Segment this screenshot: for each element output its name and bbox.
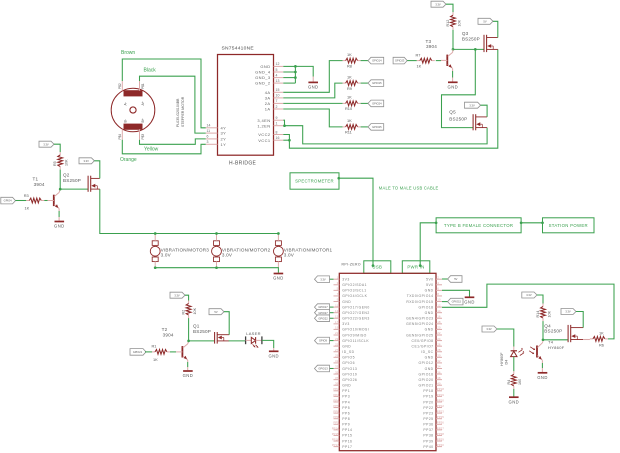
net flag 3.3V for R14 [522,292,537,298]
wire Yellow net [140,139,206,144]
wire D4 to R4 [513,357,515,372]
net flag 3.3V at U2 left [330,278,334,280]
svg-text:35: 35 [335,370,339,374]
wire R14 to T4 collector junction [542,321,544,340]
svg-text:3904: 3904 [34,182,45,187]
svg-text:2Y: 2Y [221,137,227,142]
svg-text:1,2EN: 1,2EN [257,123,270,128]
wire 5V to Q3 source [493,21,498,37]
wire T1 emitter to ground [58,209,60,212]
svg-text:3.3V: 3.3V [486,327,492,331]
svg-text:LASER: LASER [246,331,261,336]
svg-text:13: 13 [276,79,280,83]
svg-text:11: 11 [335,303,338,307]
resistor R9 1K [343,74,361,91]
svg-text:P$1: P$1 [141,83,145,89]
svg-text:GND: GND [464,300,475,305]
svg-text:R1: R1 [152,344,157,349]
svg-text:PP1: PP1 [333,387,339,391]
net flag GPIO24 [368,100,384,107]
svg-text:R7: R7 [416,52,421,57]
svg-text:5V: 5V [454,277,457,281]
svg-text:PP36: PP36 [423,423,433,427]
wire flag to R3 [16,200,27,202]
svg-text:26: 26 [437,342,441,346]
svg-text:GPIO15: GPIO15 [372,81,382,85]
wire 3.3V flag to Q4 top terminal [576,312,583,328]
svg-text:PP6: PP6 [342,411,350,415]
svg-text:R2: R2 [182,310,186,315]
svg-text:10K: 10K [547,310,551,317]
svg-text:Q4: Q4 [544,323,551,328]
svg-text:PP38: PP38 [423,434,433,438]
svg-text:CE1/GPIO7: CE1/GPIO7 [412,344,434,348]
svg-text:A+: A+ [141,101,145,105]
svg-text:38: 38 [437,376,441,380]
wire 1A to R11 [283,109,342,127]
svg-text:R4: R4 [507,380,511,385]
svg-text:3.3V: 3.3V [469,103,475,107]
svg-text:GND_4: GND_4 [255,70,271,75]
svg-text:3V3: 3V3 [342,278,349,282]
svg-text:GPIO21: GPIO21 [133,350,143,354]
wire Q1 gate [189,340,215,342]
svg-text:GPIO15: GPIO15 [452,300,462,304]
svg-text:R12: R12 [446,20,450,27]
svg-text:GND: GND [342,384,351,388]
wire usb cable [339,178,373,265]
ground GND below T1 [54,222,65,229]
svg-text:Q3: Q3 [462,31,469,36]
svg-text:GPIO23: GPIO23 [395,59,405,63]
svg-text:GND_2: GND_2 [255,81,271,86]
wire type-b to station power [521,222,542,224]
svg-text:GPIO21: GPIO21 [419,384,434,388]
svg-text:HY860F: HY860F [500,352,504,366]
svg-text:PP38: PP38 [437,432,444,436]
svg-text:GPIO10/MOSI: GPIO10/MOSI [342,328,369,332]
resistor R7 1K [416,52,435,68]
svg-text:36: 36 [437,370,441,374]
svg-text:15: 15 [335,314,339,318]
svg-text:PP22: PP22 [437,404,444,408]
svg-text:1: 1 [276,122,278,126]
wire R7 to T3 base [436,60,441,62]
svg-text:12: 12 [276,62,280,66]
wire GPIO18 long net to R6 [442,284,614,339]
net flag 3.3V for D4 [482,326,497,332]
svg-text:CE0/GPIO8: CE0/GPIO8 [412,339,434,343]
svg-text:GND: GND [448,85,459,90]
svg-text:34: 34 [437,365,441,369]
svg-text:GND: GND [268,354,279,359]
svg-text:BS250P: BS250P [449,117,467,122]
svg-text:VIBRATION/MOTOR2: VIBRATION/MOTOR2 [222,247,271,252]
ground GND below T4 [537,373,548,380]
wire 3.3V flag to Q2 top terminal [94,161,99,179]
net flag GPIO9 at U2 left [330,340,334,342]
svg-text:10K: 10K [457,19,461,26]
svg-text:RPI-ZERO: RPI-ZERO [342,262,361,266]
junction T4 collector [542,338,545,341]
svg-text:GPIO17: GPIO17 [318,305,328,309]
svg-text:VIBRATION/MOTOR3: VIBRATION/MOTOR3 [161,247,210,252]
net flag GPIO25 [368,124,384,131]
transistor Q5 BS250P [449,110,487,131]
svg-text:PP9: PP9 [333,421,339,425]
svg-text:PP40: PP40 [437,443,444,447]
svg-text:PP39: PP39 [437,437,444,441]
svg-text:A-: A- [124,102,128,105]
svg-text:1Y: 1Y [221,142,227,147]
wire T2 emitter to ground [187,360,189,362]
resistor R11 1K [343,118,361,135]
diode LASER [246,331,262,348]
wire Q4 gate [543,339,568,341]
svg-text:GPIO22: GPIO22 [318,316,328,320]
transistor T3 3904 [426,39,453,68]
wire R2 to T2 collector junction [188,318,190,341]
net flag 5V at U2 pin2 [442,278,448,280]
junction VCC [288,139,291,142]
svg-text:PP5: PP5 [342,406,350,410]
ground GND below T3 [448,82,459,89]
wire T2 collector lead [187,341,190,344]
svg-text:GND: GND [425,356,434,360]
resistor R2 10K [182,301,197,319]
svg-text:PP20: PP20 [423,400,433,404]
svg-text:3,4EN: 3,4EN [257,118,270,123]
svg-text:P$2: P$2 [118,83,122,89]
svg-text:160: 160 [518,379,522,385]
svg-text:GPIO9: GPIO9 [319,339,327,343]
svg-text:5V: 5V [483,19,486,23]
svg-text:28: 28 [437,348,441,352]
svg-text:PP3: PP3 [333,393,339,397]
svg-text:PP18: PP18 [423,389,433,393]
junction type-b left [435,221,438,224]
wire Orange net [122,140,206,154]
svg-text:GPIO16: GPIO16 [419,372,434,376]
svg-text:GPIO5: GPIO5 [342,356,355,360]
svg-text:GND: GND [425,311,434,315]
svg-text:P$4: P$4 [118,134,122,140]
svg-text:HY860F: HY860F [548,345,565,350]
svg-text:3.3V: 3.3V [565,310,571,314]
junction type-b right [520,221,523,224]
svg-text:R5: R5 [53,161,57,166]
svg-text:GPIO12: GPIO12 [419,361,434,365]
svg-text:GND: GND [308,85,319,90]
svg-text:R6: R6 [599,343,604,348]
svg-text:BS250P: BS250P [462,37,480,42]
svg-text:10K: 10K [193,307,197,314]
svg-text:PP19: PP19 [423,395,433,399]
wire to GND symbol [295,66,313,76]
node TYPE B FEMALE CONNECTOR box [436,218,521,233]
svg-text:GPIO14: GPIO14 [372,59,382,63]
svg-text:PP4: PP4 [342,400,350,404]
svg-text:GND: GND [342,300,351,304]
svg-text:4A: 4A [265,90,271,95]
svg-text:STATION POWER: STATION POWER [549,223,588,228]
svg-text:GPIO6: GPIO6 [342,361,355,365]
resistor R14 10K [536,304,551,322]
ground GND after LASER [268,351,279,358]
svg-text:GND: GND [537,375,548,380]
svg-text:1K: 1K [599,330,604,335]
svg-text:Yellow: Yellow [144,147,159,153]
wire LASER to ground [262,340,274,348]
svg-text:GPIO11/SCLK: GPIO11/SCLK [342,339,369,343]
svg-text:GPIO19: GPIO19 [342,372,357,376]
net flag GPIO13 at U2 left [330,367,334,369]
svg-text:PP17: PP17 [332,443,339,447]
svg-text:GEN5/GPIO24: GEN5/GPIO24 [406,322,433,326]
svg-text:Q5: Q5 [449,110,456,115]
svg-text:33: 33 [335,365,339,369]
resistor R8 1K [343,52,361,69]
svg-text:PP9: PP9 [342,423,350,427]
svg-text:39: 39 [335,381,339,385]
wire 4A to R8 [283,61,342,93]
svg-text:R8: R8 [347,63,352,68]
wire R5 to T1 collector junction [59,170,61,190]
ground GND below MOTOR1 [273,274,284,281]
svg-text:Brown: Brown [121,50,135,56]
svg-text:13: 13 [335,309,339,313]
svg-text:GEN4/GPIO23: GEN4/GPIO23 [406,317,433,321]
wire GND bus of U1 [283,65,295,67]
wire motors bottom rail [155,268,278,273]
svg-text:PP16: PP16 [342,439,352,443]
junction [294,65,297,68]
svg-text:14: 14 [437,309,441,313]
svg-text:3.0V: 3.0V [161,253,172,258]
net flag 5V for Q3 [478,18,493,24]
svg-text:GND: GND [260,64,270,69]
svg-text:3.3V: 3.3V [526,293,532,297]
svg-text:1A: 1A [265,107,271,112]
svg-text:PP4: PP4 [333,398,339,402]
svg-text:10K: 10K [65,159,69,166]
wire 3.3V flag to Q5 top terminal [481,105,488,117]
svg-text:22: 22 [437,331,441,335]
svg-text:3.3V: 3.3V [320,277,326,281]
junction Q3 gate branch [474,48,477,51]
net flag GPIO15 at U2 pin10 [442,301,448,303]
junction pwr wire end [419,264,422,267]
wire R1 to T2 base [170,351,176,353]
svg-text:5V0: 5V0 [426,283,433,287]
svg-text:GND: GND [342,344,351,348]
svg-text:PP37: PP37 [423,428,433,432]
transistor T2 3904 [162,327,188,360]
wire T3 emitter to ground [452,68,454,71]
wire U2 GND pin6 [442,290,470,296]
svg-text:PP22: PP22 [423,406,433,410]
wire VCC net to Q3 [283,49,498,148]
svg-text:SN754410NE: SN754410NE [222,46,255,52]
svg-text:10: 10 [276,94,280,98]
svg-text:PP25: PP25 [423,417,433,421]
wire R12 to collector junction [452,30,454,50]
svg-text:6: 6 [207,135,209,139]
wire 3.3V to R14 [537,295,543,304]
svg-text:T1: T1 [33,177,39,182]
svg-text:32: 32 [437,359,441,363]
net flag GPIO17 at U2 left [330,306,334,308]
svg-text:GEN6/GPIO25: GEN6/GPIO25 [406,333,433,337]
junction station power left [541,221,544,224]
svg-text:GND_3: GND_3 [255,75,271,80]
node PWR IN box [402,261,430,274]
resistor R6 1K [590,330,608,347]
op IC U1 SN754410NE H-BRIDGE [206,46,283,167]
transistor T1 3904 [33,177,60,209]
svg-text:3.3V: 3.3V [435,2,441,6]
wire Q3 gate branch down to Q5 gate [442,49,476,127]
wire 3.3V to D4 [497,329,514,347]
svg-text:PP40: PP40 [423,445,433,449]
svg-text:PP20: PP20 [437,398,444,402]
svg-text:1K: 1K [347,95,352,100]
wire Brown net [122,59,206,128]
svg-text:PP5: PP5 [333,404,339,408]
wire Q1 to LASER [229,340,246,342]
junction usb wire end [372,264,375,267]
svg-text:24: 24 [437,337,441,341]
svg-text:11: 11 [207,129,211,133]
svg-text:GPIO18: GPIO18 [419,305,434,309]
svg-text:GPIO17/GEN0: GPIO17/GEN0 [342,305,369,309]
wire T1 collector lead [59,189,60,192]
svg-text:GND: GND [425,367,434,371]
svg-text:PP1: PP1 [342,389,350,393]
svg-text:PP36: PP36 [437,421,444,425]
svg-text:Black: Black [144,68,157,74]
resistor R3 1K [24,193,45,211]
svg-text:PL035-G20104BB: PL035-G20104BB [176,98,180,127]
svg-text:RXD0/GPIO15: RXD0/GPIO15 [406,300,433,304]
svg-text:18: 18 [437,320,441,324]
svg-text:GND: GND [425,289,434,293]
svg-text:7: 7 [276,99,278,103]
svg-text:GPIO20: GPIO20 [419,378,434,382]
net flag 3.3V for R2 [170,292,185,298]
net flag GPIO input to R3 [1,197,16,204]
svg-text:23: 23 [335,337,339,341]
svg-text:R11: R11 [345,130,352,135]
svg-text:3A: 3A [265,96,271,101]
svg-text:3904: 3904 [426,44,437,49]
resistor R5 10K [53,152,68,170]
svg-text:PP23: PP23 [437,410,444,414]
svg-text:GPIO3/SCL1: GPIO3/SCL1 [342,289,366,293]
resistor R10 1K [343,95,361,112]
svg-text:GPIO4/GCLK: GPIO4/GCLK [342,294,367,298]
wire 3.3V to R5 [54,144,60,152]
svg-text:VCC2: VCC2 [258,132,271,137]
svg-text:2: 2 [276,105,278,109]
svg-text:PP19: PP19 [437,393,444,397]
svg-text:PP18: PP18 [437,387,444,391]
svg-text:30: 30 [437,354,441,358]
net flag 3.3V for Q5 [465,102,481,108]
svg-text:PP8: PP8 [342,417,350,421]
wire R3 to T1 base [44,200,47,202]
svg-text:Orange: Orange [120,157,137,163]
transistor Q2 BS250P [63,173,100,192]
svg-text:2A: 2A [265,101,271,106]
svg-text:GND: GND [183,373,194,378]
net flag 3.3V for Q2 [79,158,94,164]
svg-text:TXD0/GPIO14: TXD0/GPIO14 [407,294,434,298]
svg-text:GPIO26: GPIO26 [342,378,357,382]
svg-text:VCC1: VCC1 [258,138,271,143]
svg-text:BS250P: BS250P [544,329,562,334]
svg-text:9: 9 [276,116,278,120]
svg-text:R3: R3 [24,193,29,198]
svg-text:SPECTROMETER: SPECTROMETER [295,179,334,184]
svg-text:R14: R14 [536,311,540,318]
junction motors bottom rail [154,266,157,269]
ground GND below R4 [509,397,520,404]
svg-text:PP15: PP15 [342,434,352,438]
stepper motor M1 PL035-G20104BB [111,81,185,140]
svg-text:3.3V: 3.3V [174,293,180,297]
svg-text:B-: B- [124,119,128,122]
svg-text:3: 3 [207,140,209,144]
svg-text:PWR IN: PWR IN [407,265,424,270]
node USB port box [364,261,391,274]
motor VIBRATION/MOTOR2 [212,234,271,268]
wire R4 to ground [513,389,515,397]
diode D4 HY860F infrared LED [500,347,524,367]
svg-text:P$3: P$3 [141,134,145,140]
phototransistor T4 HY860F [529,340,565,361]
svg-text:1K: 1K [347,52,352,57]
svg-text:4Y: 4Y [221,125,227,130]
svg-text:GPIO9/MISO: GPIO9/MISO [342,333,366,337]
net flag GPIO27 at U2 left [330,312,334,314]
svg-text:GND: GND [273,276,284,281]
svg-text:PP6: PP6 [333,410,339,414]
resistor R4 160 [507,371,522,389]
svg-text:STEPPER MOTOR: STEPPER MOTOR [181,96,185,127]
svg-text:PP25: PP25 [437,415,444,419]
svg-text:GND: GND [54,224,65,229]
wire R11 to flag [361,126,368,128]
junction motors top rail [154,232,157,235]
net flag GPIO input to R7 [393,57,407,64]
svg-text:H-BRIDGE: H-BRIDGE [229,161,257,167]
transistor Q1 BS250P [193,324,229,344]
net flag GPIO input to R1 [130,349,146,356]
svg-text:3.3V: 3.3V [43,142,49,146]
svg-text:17: 17 [335,320,339,324]
svg-text:PP17: PP17 [342,445,352,449]
svg-text:ID_SC: ID_SC [421,350,433,354]
svg-text:T2: T2 [162,327,168,332]
ground GND at U2 right [464,297,475,304]
svg-text:40: 40 [437,381,441,385]
wire T4 emitter to ground [541,360,543,363]
svg-text:PP15: PP15 [332,432,339,436]
svg-text:PP14: PP14 [342,428,352,432]
wire type-b to pwr-in [420,223,436,266]
svg-text:T4: T4 [548,340,554,345]
